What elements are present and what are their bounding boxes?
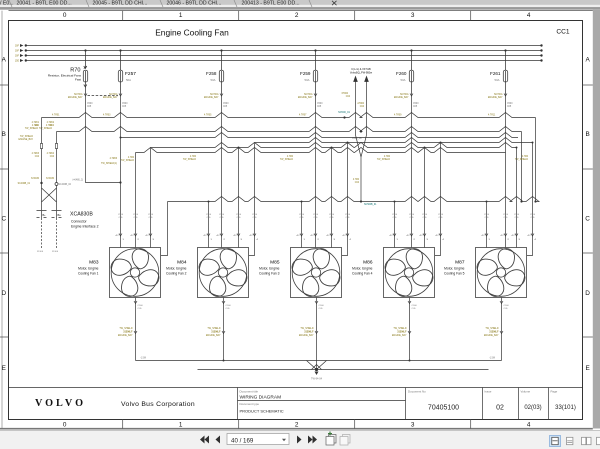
svg-text:Document type: Document type (240, 402, 260, 406)
connector XCA830B label (70, 212, 99, 229)
svg-text:C500: C500 (412, 305, 418, 307)
L1 wire number labels (52, 115, 496, 117)
svg-text:C04: C04 (346, 96, 351, 98)
svg-text:31306: 31306 (52, 251, 59, 253)
svg-text:C500: C500 (530, 214, 536, 216)
svg-text:SC500_01: SC500_01 (338, 111, 350, 114)
svg-text:02(03): 02(03) (524, 405, 541, 411)
svg-text:4.7R04: 4.7R04 (47, 153, 55, 155)
svg-text:TW_SHIELD: TW_SHIELD (20, 136, 33, 138)
svg-text:02: 02 (496, 405, 504, 412)
svg-text:Engine Cooling Fan: Engine Cooling Fan (155, 28, 229, 38)
svg-text:F261: F261 (490, 71, 501, 76)
motor M85 Engine Cooling Fan 3 (290, 246, 342, 298)
svg-text:2: 2 (295, 422, 299, 429)
wire run L2 (57, 127, 522, 132)
svg-text:-1.5M: -1.5M (489, 358, 495, 360)
svg-text:SC700A: SC700A (304, 93, 313, 96)
R70 splice label (101, 158, 118, 165)
svg-text:Cooling Fan 1: Cooling Fan 1 (78, 272, 99, 276)
shield wire labels (37, 251, 59, 253)
M86 pin wires (395, 143, 441, 256)
svg-text:Motor, Engine: Motor, Engine (259, 267, 280, 271)
svg-text:C05: C05 (317, 106, 322, 108)
document number cell (408, 390, 459, 412)
svg-text:50A: 50A (305, 78, 310, 82)
L2 right drop (521, 132, 523, 202)
M85 ground wire (316, 298, 318, 361)
M85 pin wire codes (299, 214, 351, 219)
svg-text:TW_SHIELD: TW_SHIELD (485, 328, 498, 330)
svg-text:0: 0 (63, 422, 67, 429)
svg-text:C04: C04 (50, 156, 55, 158)
toolbar background (0, 430, 600, 449)
svg-text:50A: 50A (126, 78, 131, 82)
svg-text:50A: 50A (495, 78, 500, 82)
wire run S3 (151, 143, 517, 148)
resistor R70 (83, 51, 87, 96)
top ruler band line (9, 10, 593, 12)
svg-text:15E: 15E (15, 61, 20, 63)
wire code labels at x=120.5 (103, 93, 118, 99)
svg-text:WIRING DIAGRAM: WIRING DIAGRAM (240, 395, 282, 401)
M84 pin wires (209, 143, 255, 256)
crossover swap (42, 188, 57, 202)
svg-text:VolvoBQ_PW-9B0w: VolvoBQ_PW-9B0w (350, 72, 372, 75)
svg-text:0: 0 (63, 12, 67, 19)
svg-text:C05: C05 (223, 106, 228, 108)
svg-text:TW_SHIELD: TW_SHIELD (207, 328, 220, 330)
svg-text:C500: C500 (148, 214, 154, 216)
L3 junction dots (208, 201, 488, 203)
fuse F261 feed wire to M87 (505, 95, 507, 248)
svg-text:ENGINE_BAY: ENGINE_BAY (118, 334, 133, 337)
svg-text:67900: 67900 (342, 93, 349, 95)
svg-text:TW_SHIELD: TW_SHIELD (183, 159, 196, 161)
svg-text:ENGINE_BAY: ENGINE_BAY (394, 96, 409, 99)
svg-text:/ E0...: / E0... (0, 1, 14, 7)
svg-text:3: 3 (411, 12, 415, 19)
svg-text:31306: 31306 (37, 251, 44, 253)
svg-text:4.7R05: 4.7R05 (204, 115, 212, 117)
fuse F259 (313, 51, 317, 96)
right ruler ticks (583, 85, 593, 337)
splice node (40, 182, 42, 184)
M87 pin wire codes (484, 214, 536, 219)
svg-text:67A930: 67A930 (31, 177, 40, 180)
svg-text:M85: M85 (270, 260, 280, 266)
svg-text:TW_SHIELD: TW_SHIELD (393, 328, 406, 330)
right gray margin (593, 10, 600, 429)
svg-text:4.7R0: 4.7R0 (190, 156, 197, 158)
svg-text:TW_SHIELD: TW_SHIELD (280, 159, 293, 161)
svg-text:TW_SHIELD: TW_SHIELD (300, 328, 313, 330)
svg-text:PRODUCT SCHEMATIC: PRODUCT SCHEMATIC (240, 409, 284, 414)
fuse output connector pins (84, 94, 507, 97)
svg-text:TW_SHIELD: TW_SHIELD (377, 159, 390, 161)
bus left terminals (20, 44, 27, 62)
wire code 4.7R09 (353, 179, 360, 184)
F260 labels (396, 71, 407, 82)
page number field (227, 434, 289, 445)
M86 pin connector marks (393, 234, 442, 237)
S2 junction dots (347, 142, 534, 144)
svg-text:TW-94-04: TW-94-04 (311, 378, 323, 381)
nav prev button (216, 436, 221, 444)
svg-text:B+: B+ (43, 214, 47, 217)
off-page wire codes (342, 93, 365, 108)
M86 pin wire codes (392, 214, 444, 219)
svg-text:3: 3 (411, 422, 415, 429)
wire run S1 (121, 133, 519, 138)
left wire labels upper (32, 122, 55, 127)
M83 ground wire pins (134, 301, 137, 334)
twisted pair converge (356, 135, 367, 202)
L3 left corner to M83 pin4 (161, 202, 168, 256)
svg-text:30F: 30F (15, 56, 20, 58)
svg-text:C500: C500 (299, 214, 305, 216)
wire code labels at x=85.5 (68, 93, 83, 99)
svg-text:ENGINE_BAY: ENGINE_BAY (204, 96, 219, 99)
svg-text:TW_SHIELD: TW_SHIELD (119, 328, 132, 330)
svg-text:31306LF: 31306LF (489, 332, 499, 334)
svg-text:TW_SHIELD: TW_SHIELD (25, 128, 38, 130)
svg-text:50A: 50A (211, 78, 216, 82)
off-page target label (350, 68, 372, 75)
M87 ground wire codes (504, 305, 510, 310)
svg-text:ENGINE_BAY: ENGINE_BAY (299, 334, 314, 337)
F258 labels (206, 71, 217, 82)
svg-text:ENGINE_BAY: ENGINE_BAY (392, 334, 407, 337)
svg-text:Motor, Engine: Motor, Engine (166, 267, 187, 271)
svg-text:SC700A: SC700A (74, 93, 83, 96)
svg-text:SC700A: SC700A (210, 93, 219, 96)
page-copy icon 2 (disabled) (340, 435, 350, 446)
svg-text:Connector: Connector (71, 220, 88, 224)
M83 ground wire codes (138, 305, 144, 310)
svg-text:ENGINE_BAY: ENGINE_BAY (18, 138, 33, 141)
svg-text:E: E (585, 365, 589, 372)
M84 labels (166, 260, 187, 276)
left ruler ticks (0, 85, 9, 337)
wire run S4 (136, 148, 506, 153)
svg-text:31306LF: 31306LF (123, 332, 133, 334)
svg-text:4.7R03: 4.7R03 (103, 115, 111, 117)
svg-text:F258: F258 (206, 71, 217, 76)
M85 pin numbers (297, 235, 352, 241)
svg-text:Cooling Fan 5: Cooling Fan 5 (444, 272, 465, 276)
svg-text:C04: C04 (355, 182, 360, 184)
document title cell (240, 390, 284, 414)
nav first-page button (200, 436, 209, 444)
wire run S2 (255, 138, 533, 143)
svg-text:4.7R01: 4.7R01 (52, 115, 60, 117)
svg-text:C04: C04 (360, 106, 365, 108)
M84 pin numbers (204, 235, 259, 241)
svg-text:4.7R0: 4.7R0 (128, 157, 135, 159)
fuse F257 feed wire to M83 (120, 95, 122, 248)
nav next button (297, 436, 302, 444)
R70 output wire (86, 96, 121, 183)
svg-text:A: A (585, 57, 590, 64)
bus feed labels (15, 46, 20, 63)
svg-text:4.7R11: 4.7R11 (488, 115, 496, 117)
svg-text:C500: C500 (87, 103, 93, 105)
svg-text:Motor, Engine: Motor, Engine (444, 267, 465, 271)
svg-text:20046 - B9TL DD CHI...: 20046 - B9TL DD CHI... (167, 1, 222, 7)
top ruler ticks (123, 11, 471, 21)
svg-text:C500: C500 (138, 305, 144, 307)
svg-text:Cooling Fan 3: Cooling Fan 3 (259, 272, 280, 276)
ground node (315, 361, 319, 376)
shield wires dashed (42, 218, 57, 248)
nav last-page button (308, 436, 317, 444)
svg-text:33(101): 33(101) (555, 405, 576, 411)
left wire labels lower (31, 153, 55, 180)
svg-text:Motor, Engine: Motor, Engine (78, 267, 99, 271)
wire run L3 (168, 197, 540, 202)
svg-text:TW_SHIELD: TW_SHIELD (515, 159, 528, 161)
ground bus merge diagonals (307, 361, 327, 370)
svg-text:ENGINE_BAY: ENGINE_BAY (68, 96, 83, 99)
svg-text:ENGINE_BAY: ENGINE_BAY (484, 334, 499, 337)
svg-text:F257: F257 (125, 71, 136, 77)
row letters right (585, 57, 590, 373)
svg-text:TW_SHIELD(1): TW_SHIELD(1) (101, 163, 117, 165)
M85 labels (259, 260, 280, 276)
svg-text:Volume: Volume (521, 390, 531, 394)
svg-text:C05: C05 (413, 106, 418, 108)
svg-text:70405100: 70405100 (428, 405, 459, 412)
M87 labels (444, 260, 465, 276)
svg-text:C500: C500 (329, 214, 335, 216)
svg-text:200413 - B9TL E00 DD...: 200413 - B9TL E00 DD... (242, 1, 300, 7)
svg-text:F259: F259 (300, 71, 311, 76)
svg-text:Issue: Issue (485, 390, 492, 394)
svg-text:M86: M86 (363, 260, 373, 266)
L1 right drop (535, 118, 537, 202)
svg-text:C04: C04 (50, 125, 55, 127)
connector node (55, 183, 58, 186)
view mode single-page (active) (550, 436, 561, 447)
svg-text:ENGINE_BAY: ENGINE_BAY (103, 96, 118, 99)
M83 pin numbers (116, 235, 155, 241)
svg-text:C500: C500 (219, 214, 225, 216)
bottom ruler band line (0, 428, 593, 430)
M86 pin numbers (390, 235, 445, 241)
svg-text:B: B (2, 131, 6, 138)
F259 labels (300, 71, 311, 82)
wire V2 (56, 132, 58, 211)
motor M83 Engine Cooling Fan 1 (109, 246, 161, 298)
ground bus upper (136, 360, 502, 362)
svg-text:C04: C04 (35, 125, 40, 127)
svg-text:D: D (1, 290, 6, 297)
svg-text:Engine Interface 2: Engine Interface 2 (71, 225, 99, 229)
svg-text:C05: C05 (87, 106, 92, 108)
fuse F260 feed wire to M86 (411, 95, 413, 248)
tab close button (332, 1, 337, 5)
svg-text:C500: C500 (438, 214, 444, 216)
M87 pin wires (487, 143, 533, 256)
svg-text:1: 1 (179, 12, 183, 19)
svg-text:20045 - B9TL DD CHI...: 20045 - B9TL DD CHI... (93, 1, 148, 7)
tab titles (0, 1, 300, 7)
band wire code labels (25, 125, 529, 162)
svg-text:C500: C500 (206, 214, 212, 216)
M85 ground wire codes (319, 305, 325, 310)
M86 ground wire (409, 298, 411, 361)
svg-text:C500: C500 (118, 214, 124, 216)
svg-text:A7900: A7900 (357, 102, 364, 105)
svg-text:C500: C500 (319, 305, 325, 307)
svg-text:C500: C500 (392, 214, 398, 216)
svg-text:TW_SHIELD: TW_SHIELD (121, 160, 134, 162)
svg-text:C500: C500 (504, 305, 510, 307)
view mode scroll icon (567, 437, 573, 444)
fuse F257 (118, 51, 122, 96)
page-copy icon 1 (326, 432, 336, 446)
svg-text:31306LF: 31306LF (397, 332, 407, 334)
svg-text:4.7R07: 4.7R07 (299, 115, 307, 117)
svg-text:ENGINE_BAY: ENGINE_BAY (298, 96, 313, 99)
svg-text:C04: C04 (35, 156, 40, 158)
node SC500B_01 (360, 200, 362, 202)
S1 left junction (120, 137, 122, 139)
wire run L1 (42, 113, 536, 118)
svg-text:4.7R0: 4.7R0 (522, 156, 529, 158)
svg-text:-1.5M: -1.5M (140, 358, 146, 360)
M87 ground wire pins (500, 301, 503, 334)
svg-text:SC700A: SC700A (400, 93, 409, 96)
splice link R70-F257 (88, 95, 119, 97)
fuse F261 (503, 51, 507, 96)
column numbers bottom (63, 422, 531, 429)
svg-text:C500_0B: C500_0B (352, 138, 362, 140)
M86 ground wire codes (412, 305, 418, 310)
svg-text:67A930: 67A930 (46, 177, 55, 180)
svg-text:C500: C500 (409, 214, 415, 216)
svg-text:SC400B_01: SC400B_01 (18, 183, 31, 185)
M85 pin connector marks (300, 234, 349, 237)
svg-text:4.7R03: 4.7R03 (32, 153, 40, 155)
svg-text:1: 1 (179, 422, 183, 429)
svg-text:VOLVO: VOLVO (35, 398, 86, 409)
svg-text:C: C (585, 216, 590, 223)
svg-text:C500: C500 (226, 305, 232, 307)
shield labels left margin (18, 136, 33, 141)
svg-text:Document title: Document title (240, 390, 259, 394)
svg-text:4.7R09: 4.7R09 (394, 115, 402, 117)
bus end labels (140, 358, 495, 360)
M84 ground wire pins (222, 301, 225, 334)
svg-text:E: E (2, 365, 6, 372)
M83 ground wire (135, 298, 137, 361)
svg-text:Page: Page (551, 390, 558, 394)
svg-text:Motor, Engine: Motor, Engine (352, 267, 373, 271)
left ruler band edge (1, 11, 3, 429)
svg-text:Document No: Document No (408, 390, 426, 394)
bus junction dots (84, 49, 506, 51)
F261 labels (490, 71, 501, 82)
title block frame (9, 388, 583, 420)
svg-text:C05: C05 (507, 106, 512, 108)
power bus lines (27, 46, 542, 61)
svg-text:C500: C500 (133, 214, 139, 216)
tab separators (9, 0, 312, 7)
S3 junction dots (238, 147, 518, 149)
svg-text:CC1: CC1 (556, 29, 570, 36)
svg-text:4.7R0: 4.7R0 (287, 156, 294, 158)
svg-text:31306LF: 31306LF (211, 332, 221, 334)
svg-text:4.7R01: 4.7R01 (32, 122, 40, 124)
svg-text:C500: C500 (507, 103, 513, 105)
fuse F260 (409, 51, 413, 96)
bus right terminals (540, 44, 542, 61)
issue cell (485, 390, 504, 412)
svg-text:D: D (585, 290, 590, 297)
svg-text:B: B (585, 131, 589, 138)
svg-text:M84: M84 (177, 260, 187, 266)
svg-text:C500: C500 (514, 214, 520, 216)
M83 labels (78, 260, 99, 276)
row letters left (1, 57, 6, 373)
view mode icon cut at edge (597, 437, 600, 444)
M86 ground wire pins (408, 301, 411, 334)
off-page connector arrows (354, 77, 358, 136)
connector pin labels (43, 214, 62, 217)
M84 ground wire (223, 298, 225, 361)
svg-text:4.7R0: 4.7R0 (384, 156, 391, 158)
R70 labels (48, 68, 82, 82)
svg-text:SC500B_01: SC500B_01 (364, 204, 377, 206)
svg-text:C500: C500 (422, 214, 428, 216)
svg-text:ENGINE_BAY: ENGINE_BAY (488, 96, 503, 99)
M83 pin wire codes (118, 214, 154, 219)
left inline connector pins (40, 144, 57, 149)
svg-text:4: 4 (527, 422, 531, 429)
M87 pin connector marks (485, 234, 534, 237)
motor M86 Engine Cooling Fan 4 (383, 246, 435, 298)
svg-text:TW_SHIELD: TW_SHIELD (39, 128, 52, 130)
node SC500_01 (343, 116, 345, 118)
svg-text:C: C (1, 216, 6, 223)
svg-text:C500: C500 (317, 103, 323, 105)
svg-text:C500: C500 (484, 214, 490, 216)
ground bus junction dots (223, 360, 411, 362)
wire code labels at x=411.5 (394, 93, 409, 99)
connector XCA830B pins (37, 211, 62, 219)
svg-text:A: A (2, 57, 7, 64)
wire V1 (41, 118, 43, 211)
svg-text:40 / 169: 40 / 169 (231, 437, 254, 444)
svg-text:C500: C500 (236, 214, 242, 216)
M84 pin wire codes (206, 214, 258, 219)
svg-text:4.7R02: 4.7R02 (47, 122, 55, 124)
svg-text:C500: C500 (122, 103, 128, 105)
svg-text:XCA830B: XCA830B (70, 212, 93, 218)
volume cell (521, 390, 542, 412)
svg-text:30F: 30F (15, 46, 20, 48)
bottom ruler ticks (123, 419, 471, 429)
view mode two-page icon (582, 437, 592, 444)
svg-text:C500: C500 (413, 103, 419, 105)
M84 pin connector marks (207, 234, 256, 237)
svg-text:Fast: Fast (75, 78, 81, 82)
svg-text:C05: C05 (122, 106, 127, 108)
svg-text:Volvo Bus Corporation: Volvo Bus Corporation (121, 401, 195, 408)
svg-text:SC700A: SC700A (494, 93, 503, 96)
